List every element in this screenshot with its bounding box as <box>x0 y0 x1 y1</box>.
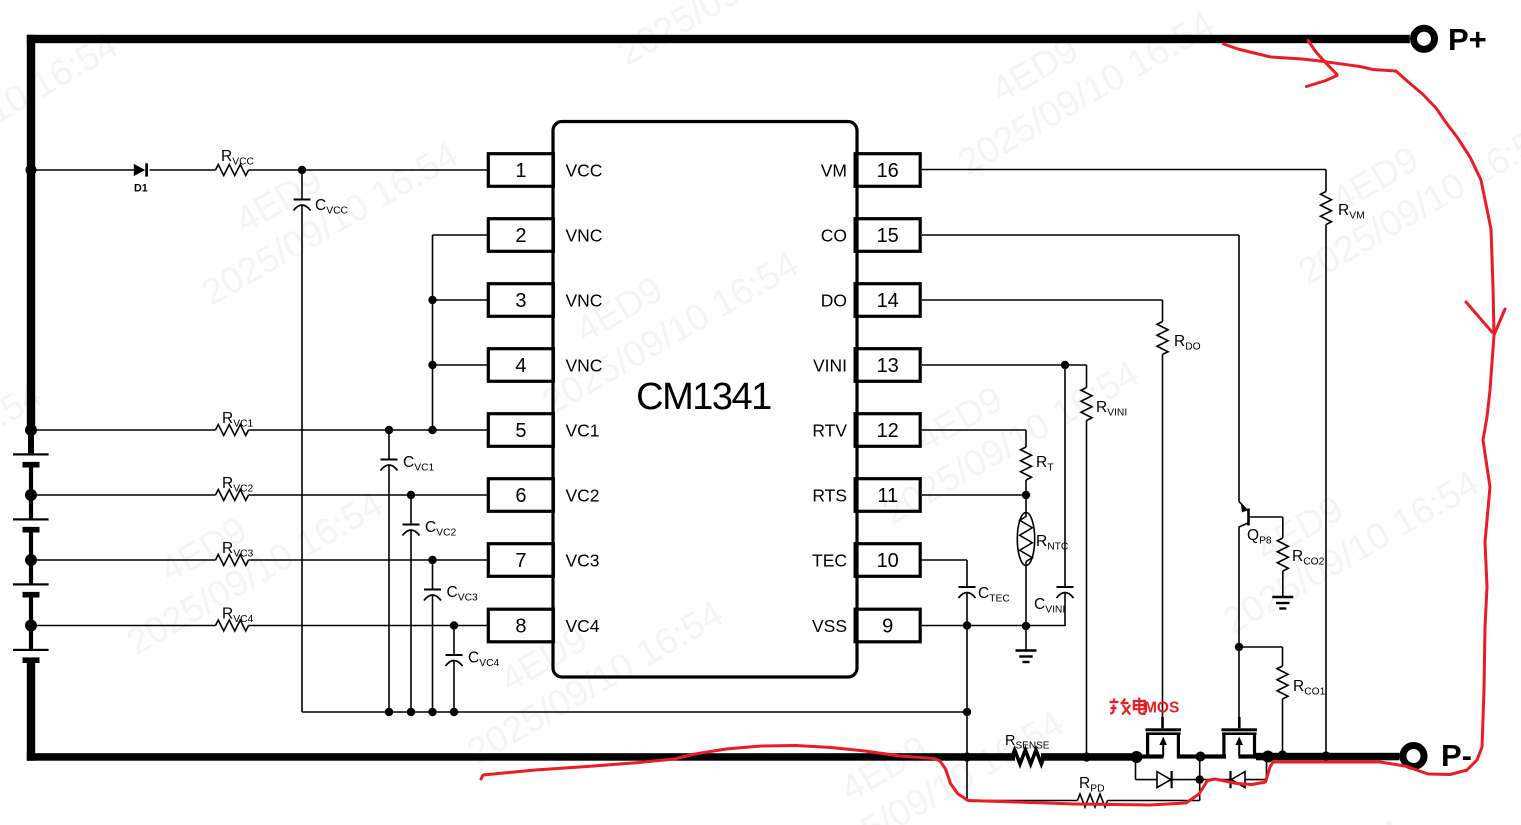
capacitor CVINI <box>1064 365 1066 587</box>
svg-text:7: 7 <box>515 550 526 572</box>
pin 9 VSS <box>855 609 920 642</box>
pin 1 VCC <box>488 154 553 187</box>
svg-text:5: 5 <box>515 420 526 442</box>
node TEC/712 junction <box>963 708 971 716</box>
node pin3 junction <box>428 296 436 304</box>
resistor RVCC <box>216 165 249 176</box>
pin 12 RTV <box>855 414 920 447</box>
node battery tap 1 <box>25 424 37 436</box>
node VINI junction <box>1061 361 1069 369</box>
svg-text:RTV: RTV <box>812 420 847 440</box>
wire red annotation cross mark <box>1307 41 1338 87</box>
capacitor CTEC <box>966 560 968 587</box>
node CVC1 bottom junction <box>385 708 393 716</box>
resistor RVC2 <box>216 490 249 501</box>
wire VC4 row <box>31 625 216 627</box>
svg-text:VINI: VINI <box>813 355 847 375</box>
transistor Q1 discharge MOSFET <box>1161 717 1164 728</box>
node red label discharge MOS <box>1110 698 1145 715</box>
wire ground return row y712 <box>302 711 967 713</box>
capacitor CVC2 <box>410 495 412 525</box>
thermistor RNTC <box>1017 513 1034 566</box>
wire left bus vertical <box>27 35 35 430</box>
pin 5 VC1 <box>488 414 553 447</box>
svg-text:VC4: VC4 <box>566 616 600 636</box>
svg-text:6: 6 <box>515 485 526 507</box>
resistor RVC3 <box>216 555 249 566</box>
svg-text:3: 3 <box>515 290 526 312</box>
wire RVINI column <box>1086 421 1088 755</box>
svg-text:11: 11 <box>877 485 898 507</box>
resistor RDO <box>1162 300 1164 322</box>
node MOSFET drain junction <box>1196 752 1206 762</box>
node RVM bus junction <box>1321 751 1330 760</box>
node P- terminal <box>1403 746 1424 767</box>
capacitor CVC4 <box>453 626 455 656</box>
svg-text:VNC: VNC <box>566 355 603 375</box>
resistor RVC1 <box>216 425 249 436</box>
node battery tap 4 <box>25 620 37 632</box>
wire VNC pins 2-3-4 line <box>432 235 434 430</box>
pin 8 VC4 <box>488 609 553 642</box>
pin 14 DO <box>855 284 920 317</box>
svg-text:VNC: VNC <box>566 290 603 310</box>
wire VINI row <box>922 364 1087 366</box>
node CVC4 bottom junction <box>450 708 458 716</box>
node pin4 junction <box>428 361 436 369</box>
wire DO column to gate <box>1162 355 1164 718</box>
svg-text:VC3: VC3 <box>566 550 600 570</box>
node CVC2 top junction <box>407 491 415 499</box>
svg-text:VM: VM <box>821 160 847 180</box>
wire P- bottom bus <box>27 753 1015 761</box>
svg-text:2: 2 <box>515 225 526 247</box>
svg-text:13: 13 <box>877 355 899 377</box>
wire CO row <box>922 234 1239 236</box>
svg-text:CM1341: CM1341 <box>636 376 771 418</box>
node VCC junction <box>298 166 306 174</box>
resistor RT <box>1025 430 1027 447</box>
pin 13 VINI <box>855 349 920 382</box>
battery B2 <box>13 518 49 520</box>
pin 3 VNC <box>488 284 553 317</box>
wire QP8 base to RCO2 <box>1249 516 1283 518</box>
capacitor CVC3 <box>432 560 434 590</box>
battery B3 <box>13 583 49 585</box>
node CVC3 top junction <box>428 556 436 564</box>
wire VC3 row <box>31 559 216 561</box>
pin 4 VNC <box>488 349 553 382</box>
svg-text:VC1: VC1 <box>566 420 600 440</box>
wire VM column <box>1325 225 1327 755</box>
wire red annotation arrowhead <box>1466 302 1505 335</box>
resistor RVINI <box>1086 365 1088 388</box>
transistor Q2 charge MOSFET <box>1238 717 1241 728</box>
node RNTC bottom junction <box>1022 622 1030 630</box>
ground below VSS line <box>1025 626 1027 650</box>
node CVC4 top junction <box>450 621 458 629</box>
wire CO column lower <box>1238 527 1240 718</box>
svg-text:VNC: VNC <box>566 225 603 245</box>
svg-text:16: 16 <box>877 160 899 182</box>
wire body diode branch left <box>1135 757 1137 780</box>
node CVC3 bottom junction <box>428 708 436 716</box>
node TEC bus junction <box>962 752 971 761</box>
svg-text:VC2: VC2 <box>566 485 600 505</box>
diode D3 body diode of Q2 <box>1200 779 1231 781</box>
wire red annotation main curve <box>481 44 1494 805</box>
svg-text:4: 4 <box>515 355 526 377</box>
resistor RVM <box>1325 170 1327 192</box>
transistor QP8 <box>1239 502 1248 512</box>
pin 7 VC3 <box>488 544 553 577</box>
resistor RVC4 <box>216 620 249 631</box>
svg-text:VCC: VCC <box>566 160 603 180</box>
wire riser to bus <box>1199 757 1201 801</box>
capacitor CVC1 <box>388 430 390 460</box>
wire DO row <box>922 299 1163 301</box>
wire VCC row <box>31 169 134 171</box>
node RVINI bus junction <box>1082 752 1091 761</box>
svg-text:12: 12 <box>877 420 899 442</box>
battery B4 <box>13 649 49 651</box>
node battery tap 3 <box>25 554 37 566</box>
op-amp U1 CM1341 IC body <box>553 122 857 678</box>
svg-text:D1: D1 <box>134 183 148 195</box>
wire VC1 row <box>31 429 216 431</box>
pin 10 TEC <box>855 544 920 577</box>
node RCO1 bus junction <box>1262 751 1274 763</box>
node battery tap 2 <box>25 489 37 501</box>
resistor RPD <box>967 800 1078 802</box>
svg-text:9: 9 <box>882 616 893 638</box>
node P+ terminal <box>1414 28 1435 49</box>
pin 6 VC2 <box>488 479 553 512</box>
ground below RCO2 <box>1272 596 1293 598</box>
svg-text:CO: CO <box>821 225 847 245</box>
svg-text:VSS: VSS <box>812 616 847 636</box>
pin 2 VNC <box>488 219 553 252</box>
svg-text:TEC: TEC <box>812 550 847 570</box>
svg-text:P+: P+ <box>1448 22 1487 57</box>
diode D1 <box>134 164 145 176</box>
wire VC2 row <box>31 494 216 496</box>
resistor RSENSE <box>1012 750 1044 764</box>
node VSS/TEC junction <box>963 621 971 629</box>
capacitor CVCC <box>301 170 303 199</box>
node CVC2 bottom junction <box>407 708 415 716</box>
node diode net junction <box>1196 775 1204 783</box>
svg-text:14: 14 <box>877 290 899 312</box>
svg-text:1: 1 <box>515 160 526 182</box>
node pin5 junction <box>428 426 436 434</box>
pin 16 VM <box>855 154 920 187</box>
svg-text:15: 15 <box>877 225 899 247</box>
svg-text:MOS: MOS <box>1144 700 1179 717</box>
svg-text:10: 10 <box>877 550 899 572</box>
resistor RCO2 <box>1282 517 1284 538</box>
wire riser Q2 drain <box>1266 757 1268 780</box>
wire P+ top bus <box>27 35 1410 43</box>
resistor RCO1 <box>1239 646 1283 648</box>
node RTS junction <box>1022 491 1030 499</box>
pin 11 RTS <box>855 479 920 512</box>
node CVC1 top junction <box>385 426 393 434</box>
battery B1 <box>13 453 49 455</box>
diode D2 body diode of Q1 <box>1157 772 1171 788</box>
wire RTS row <box>922 494 1026 496</box>
svg-text:DO: DO <box>821 290 847 310</box>
wire TEC row <box>922 559 967 561</box>
pin 15 CO <box>855 219 920 252</box>
wire VM row <box>922 169 1326 171</box>
svg-text:RTS: RTS <box>812 485 847 505</box>
node CO/RCO1 junction <box>1235 643 1243 651</box>
wire RTV row <box>922 429 1026 431</box>
node MOSFET1 source junction <box>1131 751 1143 763</box>
svg-text:8: 8 <box>515 616 526 638</box>
wire VSS row <box>922 625 1065 627</box>
